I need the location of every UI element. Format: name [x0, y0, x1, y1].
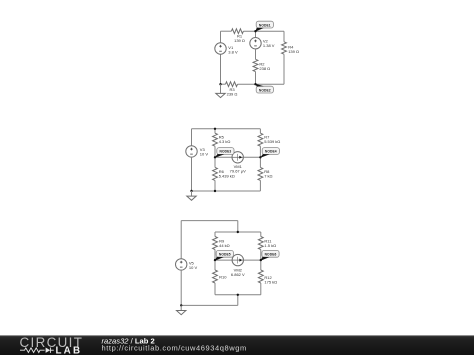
footer title razas32 / Lab 2: [102, 337, 155, 346]
footer url: [102, 343, 247, 352]
junction NODE2: [254, 83, 256, 85]
junction bottom ground: [180, 304, 182, 306]
R8 label: [264, 169, 272, 178]
wire top-left rail V1 top: [220, 31, 222, 43]
wire feed down from bridge: [237, 295, 239, 306]
ground top circuit: [216, 84, 225, 97]
svg-text:NODE5: NODE5: [219, 253, 231, 257]
wire meter right: [243, 156, 260, 158]
wire bottom rail right of R3: [238, 83, 285, 85]
wire top rail right of R1: [243, 30, 284, 32]
svg-text:http://circuitlab.com/cuw46934: http://circuitlab.com/cuw46934q8wgm: [102, 343, 247, 352]
voltage source V2: [250, 38, 261, 49]
V2 label: [263, 39, 275, 48]
node NODE3: [215, 148, 234, 158]
junction bottom-left: [219, 83, 221, 85]
R4 label: [288, 45, 299, 54]
wire right rail bottom: [283, 54, 285, 84]
junction NODE1: [254, 30, 256, 32]
CircuitLab logo CIRCUIT text: [20, 335, 84, 350]
svg-text:NODE3: NODE3: [219, 150, 231, 154]
VM1 label: [230, 164, 246, 173]
resistor R8: [258, 167, 263, 180]
svg-text:5.439 kΩ: 5.439 kΩ: [219, 173, 235, 178]
wire R5 to node3: [214, 146, 216, 167]
svg-text:3.8 V: 3.8 V: [228, 50, 238, 55]
R1 label: [234, 33, 245, 42]
junction bridge bottom feed: [237, 294, 239, 296]
R9 label: [219, 238, 230, 247]
resistor R9: [213, 237, 218, 250]
resistor R2: [253, 59, 258, 71]
wire R2 to bottom: [255, 72, 257, 85]
voltage source V1: [215, 43, 226, 54]
wire bridge top rail: [215, 231, 261, 233]
resistor R1: [231, 29, 243, 34]
wire right branch top: [259, 129, 261, 133]
voltmeter VM1: [232, 152, 243, 163]
node NODE6: [260, 250, 279, 260]
wire right rail top: [283, 31, 285, 42]
junction node6: [260, 259, 262, 261]
wire R11 to R12: [260, 250, 262, 271]
node NODE5: [215, 250, 234, 260]
CircuitLab logo LAB text: [56, 345, 83, 355]
footer bar: [0, 336, 474, 355]
svg-text:R10: R10: [219, 275, 227, 280]
resistor R6: [213, 167, 218, 180]
wire top rail left of R1: [221, 30, 232, 32]
V5 label: [189, 261, 198, 270]
junction bridge top feed: [237, 231, 239, 233]
junction node5: [214, 259, 216, 261]
CircuitLab logo resistor-diode symbol: [20, 348, 54, 353]
resistor R7: [258, 133, 263, 146]
node NODE4: [260, 148, 279, 158]
V1 label: [228, 45, 238, 54]
R2 label: [259, 62, 270, 71]
ground middle circuit: [187, 191, 196, 200]
V3 label: [200, 147, 209, 156]
wire bottom rail left of R3: [221, 83, 226, 85]
resistor R11: [258, 237, 263, 250]
wire R10 to bridge bottom: [214, 283, 216, 295]
svg-text:10 V: 10 V: [200, 151, 209, 156]
wire R8 to bottom: [259, 180, 261, 191]
svg-text:139 Ω: 139 Ω: [288, 49, 299, 54]
wire R9 to R10: [214, 250, 216, 271]
ground bottom circuit: [177, 305, 186, 314]
wire meter2 right: [244, 259, 261, 261]
voltage source V3: [186, 146, 197, 157]
svg-text:1.5 kΩ: 1.5 kΩ: [264, 243, 276, 248]
wire right branch to R11: [260, 232, 262, 237]
R3 label: [227, 87, 238, 96]
wire mid branch to V2: [255, 31, 257, 37]
R5 label: [219, 135, 231, 144]
wire feed down to bridge: [237, 221, 239, 232]
wire V5 to bottom: [180, 270, 182, 305]
svg-text:79.67 μV: 79.67 μV: [230, 168, 246, 173]
node NODE2: [255, 84, 273, 93]
svg-text:5.539 kΩ: 5.539 kΩ: [264, 139, 280, 144]
junction left branch bottom: [214, 190, 216, 192]
node NODE1: [255, 21, 273, 32]
wire mid bottom rail: [192, 190, 261, 192]
resistor R12: [258, 270, 263, 283]
resistor R4: [282, 42, 287, 54]
svg-text:139 Ω: 139 Ω: [234, 38, 245, 43]
svg-text:10 V: 10 V: [189, 265, 198, 270]
junction left branch top: [214, 128, 216, 130]
wire R6 to bottom: [214, 180, 216, 191]
svg-text:6.862 V: 6.862 V: [231, 272, 245, 277]
svg-text:1.38 V: 1.38 V: [263, 43, 275, 48]
svg-text:NODE1: NODE1: [259, 23, 271, 27]
R6 label: [219, 169, 235, 178]
junction node3: [214, 156, 216, 158]
junction node4: [259, 156, 261, 158]
resistor R3: [226, 82, 238, 87]
svg-text:NODE6: NODE6: [265, 253, 277, 257]
wire V1 bottom rail: [220, 54, 222, 84]
svg-text:238 Ω: 238 Ω: [259, 66, 270, 71]
R10 label: [219, 275, 227, 280]
VM2 label: [231, 268, 245, 277]
R7 label: [264, 135, 280, 144]
svg-text:NODE4: NODE4: [265, 150, 277, 154]
wire bridge bottom rail: [215, 294, 261, 296]
svg-text:44 kΩ: 44 kΩ: [219, 243, 230, 248]
wire meter2 left: [215, 259, 232, 261]
svg-text:4.3 kΩ: 4.3 kΩ: [219, 139, 231, 144]
wire left branch to R9: [214, 232, 216, 237]
svg-text:NODE2: NODE2: [259, 88, 271, 92]
svg-text:7 kΩ: 7 kΩ: [264, 173, 272, 178]
wire mid top-left rail: [191, 129, 193, 146]
wire left branch top: [214, 129, 216, 133]
wire R7 to node4: [259, 146, 261, 167]
voltage source V5: [176, 259, 187, 270]
svg-text:239 Ω: 239 Ω: [227, 92, 238, 97]
wire meter left: [215, 156, 232, 158]
wire R12 to bridge bottom: [260, 283, 262, 295]
wire V2 to R2: [255, 49, 257, 60]
junction mid ground: [190, 190, 192, 192]
resistor R5: [213, 133, 218, 146]
svg-text:175 kΩ: 175 kΩ: [264, 279, 277, 284]
R11 label: [264, 239, 276, 248]
resistor R10: [213, 270, 218, 283]
wire mid top rail: [192, 128, 261, 130]
wire outer bottom rail: [181, 304, 238, 306]
voltmeter VM2: [232, 254, 243, 265]
wire V3 to bottom: [191, 157, 193, 191]
wire left rail to V5: [180, 221, 182, 259]
wire bottom-circuit top rail: [181, 220, 238, 222]
svg-text:LAB: LAB: [56, 345, 83, 355]
R12 label: [264, 275, 277, 284]
